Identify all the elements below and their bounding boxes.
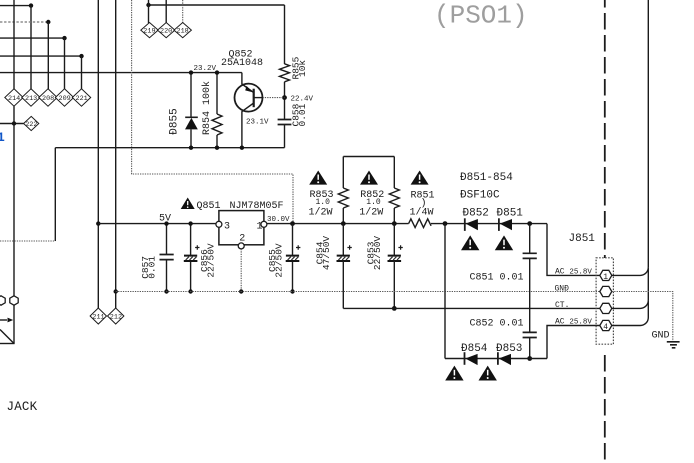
- svg-text:Ð855: Ð855: [169, 108, 181, 134]
- resistor R854 bottom stub: [216, 135, 218, 148]
- regulator pin 3 circle: [216, 221, 222, 227]
- dashed page boundary (lower): [604, 355, 606, 463]
- svg-text:212: 212: [110, 313, 122, 321]
- resistor R852 bottom stub: [393, 208, 395, 224]
- regulator pin 1 circle: [261, 221, 267, 227]
- capacitor C852: [523, 332, 537, 337]
- wire R853-R852 top bus: [343, 156, 394, 158]
- wire regulator pin2 down (grey): [240, 249, 242, 292]
- jack switch arrow wire: [0, 319, 7, 321]
- node junction dot R851 right: [443, 221, 448, 226]
- svg-text:3: 3: [224, 222, 230, 233]
- connector 209: [55, 89, 73, 106]
- wire minus column (R851 node down): [444, 224, 446, 359]
- svg-text:C852 0.01: C852 0.01: [470, 319, 524, 330]
- svg-text:219: 219: [143, 28, 155, 36]
- svg-text:1/2W: 1/2W: [359, 207, 383, 219]
- svg-text:209: 209: [59, 95, 71, 103]
- diode D852 triangle: [466, 219, 478, 230]
- wire column to connector 214: [13, 0, 15, 89]
- warning triangle D851: [495, 235, 513, 250]
- capacitor C858: [278, 120, 292, 125]
- wire step up to Q852 ground rail: [54, 148, 56, 241]
- resistor R853 bottom stub: [342, 208, 344, 224]
- capacitor C851: [523, 253, 537, 258]
- wire AC2 corner from diode rail: [547, 326, 600, 359]
- capacitor C855 plus sign: [296, 245, 300, 249]
- svg-text:Q851: Q851: [197, 201, 221, 212]
- transistor base bar: [253, 89, 255, 108]
- warning triangle Q851: [181, 198, 195, 210]
- diode D852 cathode bar: [464, 218, 466, 231]
- jack pin hexagon partial at edge: [0, 296, 5, 305]
- svg-text:0.01: 0.01: [297, 103, 308, 126]
- svg-text:22/50V: 22/50V: [206, 243, 217, 278]
- wire column to connector 209: [64, 38, 66, 89]
- svg-text:(PSO1): (PSO1): [434, 1, 528, 31]
- wire row4 to node 221: [0, 55, 82, 57]
- diode D853 cathode bar: [497, 352, 499, 365]
- capacitor C853 column top: [393, 224, 395, 256]
- diode D854 triangle: [465, 354, 477, 365]
- node junction dot C857 top: [164, 221, 168, 225]
- wire C858 bottom: [284, 125, 286, 148]
- svg-text:GNÐ: GNÐ: [555, 284, 570, 293]
- resistor R852 top stub: [393, 157, 395, 189]
- jack body diagonal: [0, 330, 14, 344]
- wire bus GND column to connector 212: [115, 0, 117, 308]
- resistor R854: [212, 114, 222, 135]
- wire harness lower: [647, 300, 649, 317]
- svg-text:AC 25.8V: AC 25.8V: [555, 318, 592, 327]
- resistor R852: [389, 188, 399, 208]
- connector 220: [158, 23, 175, 38]
- svg-text:218: 218: [177, 28, 189, 36]
- wire harness bundle vertical: [647, 0, 649, 267]
- capacitor C856 bottom: [190, 262, 192, 292]
- connector pin 1 hexagon: [600, 270, 612, 282]
- resistor R855: [280, 64, 290, 82]
- connector 219: [141, 23, 158, 38]
- svg-text:Ð854: Ð854: [461, 343, 488, 355]
- svg-text:25A1048: 25A1048: [221, 58, 263, 69]
- node junction dot 222 wire: [12, 121, 16, 125]
- capacitor C856 plus sign: [195, 245, 199, 249]
- svg-text:J851: J851: [569, 233, 596, 245]
- node junction dot row4: [79, 54, 83, 58]
- node junction dot collector rail: [240, 146, 244, 150]
- node junction dot GND rail start: [114, 289, 118, 293]
- diode D851 triangle: [500, 219, 512, 230]
- wire grey to jack lower: [0, 240, 55, 242]
- node junction dot D855 bottom: [189, 146, 193, 150]
- node junction dot C855 bottom: [290, 289, 294, 293]
- svg-text:1: 1: [257, 222, 263, 233]
- wire row2 (grey) to node 208: [0, 21, 48, 23]
- svg-text:2: 2: [239, 233, 245, 244]
- wire row1a to node 213: [0, 5, 31, 7]
- diode D855 top stub: [190, 73, 192, 118]
- connector pin 4 hexagon: [600, 320, 612, 332]
- svg-text:208: 208: [42, 95, 54, 103]
- node junction dot C856 bottom: [188, 289, 192, 293]
- resistor R853 top stub: [342, 157, 344, 189]
- connector 213: [22, 89, 40, 106]
- svg-text:221: 221: [76, 95, 88, 103]
- wire column to connector 219: [148, 0, 150, 23]
- connector pin 3 hexagon: [600, 303, 612, 313]
- node junction dot C856 top: [188, 221, 192, 225]
- capacitor C854 column top: [342, 224, 344, 256]
- warning triangle R852: [360, 171, 378, 185]
- node junction dot R853: [341, 221, 346, 226]
- wire row3 to node 209: [0, 37, 65, 39]
- connector 222: [24, 116, 39, 130]
- svg-text:22/50V: 22/50V: [274, 243, 285, 278]
- svg-text:1/2W: 1/2W: [309, 207, 333, 219]
- warning triangle R851: [411, 171, 429, 185]
- transistor emitter diagonal: [242, 84, 254, 93]
- svg-text:10k: 10k: [297, 60, 308, 77]
- svg-text:23.1V: 23.1V: [246, 119, 269, 127]
- capacitor C855 bottom: [292, 262, 294, 292]
- jack switch arrowhead: [8, 318, 14, 323]
- node junction dot C857 bottom: [164, 289, 168, 293]
- node junction dot top rail: [146, 3, 150, 7]
- node junction dot 22.4V: [282, 95, 287, 100]
- diode D855 cathode bar: [185, 116, 198, 118]
- capacitor C855 column top: [292, 224, 294, 257]
- svg-text:1.0: 1.0: [366, 198, 381, 207]
- svg-text:R854 100k: R854 100k: [201, 81, 213, 135]
- svg-text:Ð852: Ð852: [463, 208, 489, 220]
- connector 208: [39, 89, 57, 106]
- wire column to connector 218 (grey): [182, 0, 184, 23]
- capacitor C853 (electrolytic): [388, 256, 402, 261]
- wire pin1 to harness: [612, 267, 649, 275]
- svg-text:220: 220: [160, 28, 172, 36]
- connector pin 2 hexagon: [600, 286, 612, 296]
- wire Q852 ground rail: [55, 147, 284, 149]
- node junction dot pin2 gnd: [239, 289, 243, 293]
- node junction dot C852 bottom: [527, 356, 532, 361]
- svg-text:1: 1: [0, 130, 5, 145]
- wire grey L from top to C855 node: [132, 0, 293, 222]
- svg-text:JACK: JACK: [7, 400, 38, 414]
- dashed page boundary (upper): [604, 0, 606, 258]
- wire emitter stub: [241, 73, 243, 85]
- wire column to connector 221: [81, 56, 83, 89]
- svg-text:1.0: 1.0: [316, 198, 331, 207]
- capacitor C856 (electrolytic): [184, 256, 198, 261]
- wire column to connector 220: [165, 0, 167, 23]
- diode D851 cathode bar: [498, 218, 500, 231]
- node junction dot D855 top: [189, 70, 193, 74]
- wire pin3 to harness: [612, 300, 649, 308]
- svg-text:1/4W: 1/4W: [410, 207, 434, 219]
- connector 211: [90, 308, 106, 324]
- node junction dot C855: [290, 221, 295, 226]
- capacitor C857 column top: [166, 224, 168, 255]
- capacitor C857 bottom: [166, 260, 168, 292]
- svg-text:222: 222: [25, 121, 37, 129]
- node junction dot 5V rail start: [96, 221, 100, 225]
- wire pin4 to harness: [612, 318, 649, 326]
- resistor R851: [409, 219, 432, 228]
- wire jack column: [13, 106, 15, 295]
- svg-text:0.01: 0.01: [147, 256, 158, 279]
- wire column to connector 213: [30, 6, 32, 90]
- capacitor C854 bottom: [342, 261, 344, 309]
- svg-text:23.2V: 23.2V: [194, 65, 217, 73]
- diode D855 bottom stub: [190, 129, 192, 147]
- capacitor C855 (electrolytic): [286, 256, 300, 261]
- capacitor C853 bottom: [393, 261, 395, 309]
- wire output rail right part: [431, 223, 547, 225]
- resistor R854 top stub: [216, 73, 218, 114]
- svg-text:Ð853: Ð853: [496, 343, 522, 355]
- wire GND rail (grey): [116, 291, 601, 293]
- warning triangle D852: [461, 235, 479, 250]
- node junction dot C853 CT line: [392, 306, 397, 311]
- op-amp U1 regulator box: [219, 211, 264, 245]
- svg-text:47/50V: 47/50V: [321, 236, 332, 271]
- diode D855 triangle: [185, 118, 198, 129]
- jack pin hexagon: [10, 296, 18, 305]
- svg-text:C851 0.01: C851 0.01: [470, 273, 524, 284]
- transistor Q2 circle: [235, 84, 263, 112]
- svg-text:1: 1: [603, 273, 608, 282]
- svg-text:30.0V: 30.0V: [267, 216, 290, 224]
- svg-text:22.4V: 22.4V: [291, 96, 314, 104]
- connector 221: [72, 89, 90, 106]
- svg-text:211: 211: [92, 313, 104, 321]
- wire collector stub: [241, 111, 243, 148]
- wire C852 bottom: [529, 338, 531, 359]
- svg-text:CT.: CT.: [555, 301, 569, 310]
- node junction dot row1a: [29, 3, 33, 7]
- wire CT line: [343, 307, 600, 309]
- capacitor C853 plus sign: [398, 245, 402, 249]
- connector J851 box: [596, 258, 613, 344]
- wire bottom diode rail: [445, 358, 547, 360]
- wire 5V rail: [98, 223, 216, 225]
- node junction dot R854 top: [215, 70, 219, 74]
- jack body bottom: [0, 343, 15, 345]
- svg-text:213: 213: [25, 95, 37, 103]
- node junction dot R854 bottom: [215, 146, 219, 150]
- capacitor C851 column top: [529, 224, 531, 254]
- svg-text:Ð851-854: Ð851-854: [460, 172, 513, 184]
- svg-text:ÐSF10C: ÐSF10C: [460, 190, 500, 202]
- connector 218: [174, 23, 191, 38]
- wire column to connector 208: [47, 22, 49, 89]
- regulator pin 2 circle: [238, 243, 244, 249]
- wire AC1 corner from rail: [547, 224, 600, 276]
- connector 214: [5, 89, 23, 106]
- svg-text:214: 214: [8, 95, 20, 103]
- svg-text:22/50V: 22/50V: [372, 236, 383, 271]
- wire harness middle: [647, 267, 649, 300]
- transistor collector diagonal: [242, 103, 254, 112]
- svg-text:GND: GND: [652, 331, 670, 342]
- diode D853 triangle: [499, 354, 511, 365]
- node junction dot row3: [62, 36, 66, 40]
- capacitor C857: [160, 255, 174, 260]
- connector 212: [108, 308, 124, 324]
- warning triangle R853: [309, 171, 327, 185]
- svg-text:Ð851: Ð851: [497, 208, 524, 220]
- wire row5 base rail 23.2V: [0, 72, 242, 74]
- svg-text:AC 25.8V: AC 25.8V: [555, 268, 592, 277]
- ground symbol: [667, 342, 680, 348]
- resistor R853: [338, 188, 348, 208]
- capacitor C854 (electrolytic): [337, 256, 351, 261]
- capacitor C856 column top: [190, 224, 192, 257]
- wire output rail left part: [267, 223, 409, 225]
- wire below jack pin: [13, 305, 15, 344]
- wire R855 to node 22.4V: [284, 82, 286, 120]
- capacitor C854 plus sign: [347, 245, 351, 249]
- node junction dot row2: [46, 20, 50, 24]
- node junction dot R852: [392, 221, 397, 226]
- wire base (grey): [262, 97, 284, 99]
- warning triangle D853: [479, 366, 497, 381]
- node junction dot C851 top: [527, 221, 532, 226]
- svg-text:4: 4: [603, 323, 608, 332]
- wire top rail to Q852: [149, 4, 285, 6]
- capacitor C851 bottom / C852 column: [529, 258, 531, 332]
- wire R855/C858 column top: [284, 5, 286, 64]
- warning triangle D854: [445, 366, 463, 381]
- wire pin2 GND (grey): [612, 292, 673, 342]
- transistor base lead: [254, 97, 263, 99]
- diode D854 cathode bar: [464, 352, 466, 365]
- wire to connector 222: [0, 123, 24, 125]
- wire bus 5V column to connector 211: [97, 0, 99, 308]
- transistor emitter arrow: [245, 86, 252, 92]
